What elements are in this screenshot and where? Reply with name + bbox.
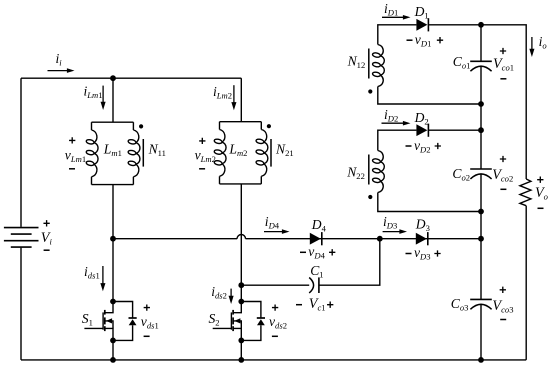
resistor R load xyxy=(520,179,531,206)
label - of V_o xyxy=(538,207,544,209)
svg-text:D1: D1 xyxy=(414,4,429,21)
svg-text:Vc1: Vc1 xyxy=(309,296,326,313)
arrow i_Lm2 xyxy=(233,85,235,103)
svg-text:Co3: Co3 xyxy=(451,296,469,313)
wire: S2 drain to C1 xyxy=(241,284,309,286)
svg-text:Vco2: Vco2 xyxy=(492,167,513,184)
arrow i_o xyxy=(531,37,533,50)
wire: top rail to load xyxy=(481,25,526,179)
wire: S2 source to bottom rail xyxy=(240,340,242,360)
wire: N22 top to D2 line xyxy=(378,130,417,150)
svg-text:D2: D2 xyxy=(414,110,429,127)
label - of v_D3 xyxy=(406,253,412,255)
label + of v_Lm1 xyxy=(69,137,75,143)
polarity dot of N12 xyxy=(368,89,372,93)
svg-text:D3: D3 xyxy=(415,217,430,234)
node: S2 drain junction xyxy=(238,299,244,305)
core bar of N12 xyxy=(368,49,370,79)
svg-text:Lm2: Lm2 xyxy=(228,142,247,159)
wire: N12 top to D1 line xyxy=(378,25,417,45)
transistor S1 (MOSFET) xyxy=(84,302,113,341)
svg-text:vds2: vds2 xyxy=(269,314,287,331)
svg-text:S2: S2 xyxy=(209,311,220,328)
node: S1 source junction xyxy=(110,338,116,344)
svg-text:N11: N11 xyxy=(148,142,166,159)
svg-text:Vi: Vi xyxy=(41,230,53,247)
wire: S1 source to bottom rail xyxy=(112,340,114,360)
wire: phase-2 drop to Lm2 xyxy=(240,78,242,122)
label - of v_ds1 xyxy=(144,335,150,337)
node: D4 tap on phase-1 column xyxy=(110,236,116,242)
label + of V_c1 xyxy=(327,302,333,308)
wire: left input rail from top rail to battery xyxy=(20,78,22,227)
wire: bus segment to Co3 xyxy=(480,239,482,300)
svg-text:Lm1: Lm1 xyxy=(103,142,122,159)
label - of v_D4 xyxy=(300,251,306,253)
polarity dot of N21 xyxy=(267,124,271,128)
label + of V_co1 xyxy=(500,48,506,54)
svg-text:iD3: iD3 xyxy=(383,214,397,231)
label - of V_i xyxy=(44,249,50,251)
svg-text:vLm2: vLm2 xyxy=(195,148,216,165)
svg-text:io: io xyxy=(539,34,548,51)
polarity dot of N11 xyxy=(139,124,143,128)
svg-text:vds1: vds1 xyxy=(141,314,159,331)
node: bus / N12 return xyxy=(478,101,484,107)
svg-text:vD2: vD2 xyxy=(414,138,431,155)
wire: C1 to D3 anode xyxy=(319,239,380,286)
arrow i_D2 xyxy=(382,122,405,124)
wire: top input rail xyxy=(21,77,241,79)
label - of v_D2 xyxy=(406,145,412,147)
winding N22 xyxy=(373,151,385,193)
capacitor Co3 xyxy=(470,299,492,309)
node: bus bottom on return rail xyxy=(478,357,484,363)
winding N12 xyxy=(373,45,385,87)
wire: N12 bottom to output bus xyxy=(378,87,481,105)
inductor Lm2 winding (left) xyxy=(214,130,226,177)
label - of v_Lm2 xyxy=(199,168,205,170)
wire: bus segment N22 to D3 xyxy=(480,212,482,239)
svg-text:N21: N21 xyxy=(275,142,294,159)
node: S2 source junction xyxy=(238,338,244,344)
node: phase-2 on bottom rail xyxy=(238,357,244,363)
transformer T1 primary box (Lm1 / N11) xyxy=(92,122,134,184)
arrow i_Lm1 xyxy=(102,86,104,104)
wire: phase-1 drop to Lm1 xyxy=(112,78,114,122)
wire: phase-2 column Lm2 to switch S2 xyxy=(240,184,242,302)
diode D1 xyxy=(416,19,427,31)
label - of V_co3 xyxy=(500,319,506,321)
wire: Co2 to N22 node xyxy=(480,174,482,211)
svg-text:Vco3: Vco3 xyxy=(492,298,513,315)
svg-text:Vco1: Vco1 xyxy=(493,56,514,73)
label - of v_D1 xyxy=(407,39,413,41)
svg-text:Co1: Co1 xyxy=(453,54,471,71)
node: S1 drain junction xyxy=(110,299,116,305)
label + of V_co2 xyxy=(500,156,506,162)
label + of V_o xyxy=(537,177,543,183)
core bar of N21 xyxy=(270,139,272,167)
node: bus / D3 cathode xyxy=(478,236,484,242)
svg-text:S1: S1 xyxy=(82,311,93,328)
capacitor Co2 xyxy=(470,169,492,179)
svg-text:iD2: iD2 xyxy=(384,107,398,124)
svg-text:D4: D4 xyxy=(311,217,327,234)
svg-text:vD3: vD3 xyxy=(414,245,431,262)
arrow i_ds1 xyxy=(102,266,104,285)
wire: D2 cathode to output bus xyxy=(428,129,481,131)
svg-text:Co2: Co2 xyxy=(452,166,470,183)
svg-text:ids1: ids1 xyxy=(84,264,100,281)
node: phase-1 on bottom rail xyxy=(110,357,116,363)
transformer T2 primary box (Lm2 / N21) xyxy=(220,122,262,184)
wire: N22 bottom to output bus xyxy=(378,193,481,212)
polarity dot of N22 xyxy=(368,195,372,199)
battery V_i xyxy=(4,228,39,248)
node: bus / N22 return xyxy=(478,209,484,215)
winding N11 (right) xyxy=(128,130,140,177)
svg-text:iD1: iD1 xyxy=(384,1,398,18)
label + of v_D1 xyxy=(437,37,443,43)
core bar of N22 xyxy=(368,155,370,185)
label - of V_c1 xyxy=(296,304,302,306)
svg-text:Vo: Vo xyxy=(535,185,549,202)
capacitor Co1 xyxy=(470,61,492,71)
label + of v_D2 xyxy=(435,143,441,149)
svg-text:iLm2: iLm2 xyxy=(213,84,232,101)
diode D3 xyxy=(416,233,427,245)
wire: phase-1 column Lm1 to switch S1 xyxy=(112,185,114,302)
arrow i_D1 xyxy=(382,16,404,18)
body diode of S1 xyxy=(113,302,137,341)
label - of v_ds2 xyxy=(272,335,278,337)
svg-text:N22: N22 xyxy=(346,165,365,182)
label + of v_D3 xyxy=(434,250,440,256)
label - of V_co1 xyxy=(500,78,506,80)
diode D2 xyxy=(416,124,427,136)
svg-text:vD1: vD1 xyxy=(415,32,432,49)
core bar of N11 xyxy=(142,139,144,167)
wire: left rail from battery to bottom rail xyxy=(20,248,22,360)
inductor Lm1 winding (left) xyxy=(86,130,98,177)
capacitor C1 xyxy=(309,277,319,293)
node: top rail / phase 1 junction xyxy=(110,75,116,81)
svg-text:ii: ii xyxy=(56,51,63,67)
label + of V_co3 xyxy=(500,287,506,293)
node: C1 tap on phase-2 column xyxy=(238,282,244,288)
wire: bus segment N12 to D2 xyxy=(480,104,482,130)
wire: D4 branch with crossover hop xyxy=(113,235,481,239)
svg-text:vD4: vD4 xyxy=(308,244,325,261)
node: bus top (D1/Co1) xyxy=(478,22,484,28)
arrow i_D3 xyxy=(383,231,401,233)
label + of v_D4 xyxy=(329,249,335,255)
wire: D1 cathode to output bus xyxy=(428,24,481,26)
label + of v_ds1 xyxy=(144,304,150,310)
arrow i_i xyxy=(48,70,69,72)
wire: bus segment to Co2 xyxy=(480,130,482,169)
body diode of S2 xyxy=(241,302,265,341)
svg-text:vLm1: vLm1 xyxy=(65,148,86,165)
wire: bus segment to Co1 xyxy=(480,25,482,62)
winding N21 (right) xyxy=(256,130,268,177)
svg-text:iD4: iD4 xyxy=(265,214,280,231)
wire: load to bottom rail xyxy=(525,206,527,360)
label - of v_Lm1 xyxy=(69,168,75,170)
label + of v_Lm2 xyxy=(199,138,205,144)
node: C1 top junction xyxy=(377,236,383,242)
wire: Co3 to bottom rail xyxy=(480,305,482,360)
arrow i_ds2 xyxy=(230,289,232,298)
label - of V_co2 xyxy=(500,188,506,190)
svg-text:iLm1: iLm1 xyxy=(84,83,103,100)
diode D4 xyxy=(310,233,321,245)
svg-text:ids2: ids2 xyxy=(211,284,227,301)
wire: Co1 to N12 node xyxy=(480,67,482,104)
transistor S2 (MOSFET) xyxy=(213,302,242,341)
svg-text:C1: C1 xyxy=(310,263,323,280)
label + of v_ds2 xyxy=(272,304,278,310)
arrow i_D4 xyxy=(264,231,283,233)
wire: bottom return rail xyxy=(21,359,526,361)
svg-text:N12: N12 xyxy=(347,54,366,71)
node: bus / D2 cathode xyxy=(478,127,484,133)
label + of V_i xyxy=(43,220,49,226)
